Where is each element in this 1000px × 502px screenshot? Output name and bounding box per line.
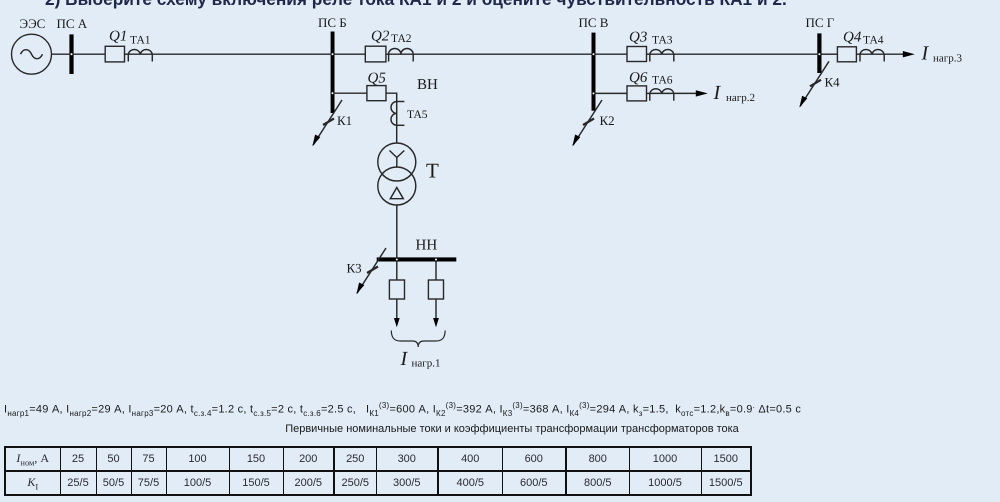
wire Q3 to TA3 [647, 53, 650, 55]
fault K2 lightning [572, 100, 602, 146]
wire TA6 to load 2 arrow [674, 92, 697, 94]
svg-text:НН: НН [416, 238, 438, 254]
svg-text:ТА2: ТА2 [391, 33, 412, 45]
feeder 1 wire upper [396, 262, 398, 281]
svg-text:ПС В: ПС В [579, 15, 609, 30]
CT TA2 [389, 49, 414, 62]
transformer T [378, 143, 416, 205]
svg-text:нагр.1: нагр.1 [412, 358, 441, 370]
generator ЭЭС (source symbol) [12, 34, 52, 74]
svg-text:ВН: ВН [417, 77, 438, 93]
svg-text:ПС А: ПС А [57, 16, 88, 31]
svg-text:Q1: Q1 [109, 28, 127, 44]
svg-text:Q5: Q5 [368, 70, 387, 86]
bus ПС А [69, 34, 73, 74]
wire transformer to bus НН [396, 205, 398, 257]
wire TA1 to bus Б [152, 53, 330, 55]
CT TA3 [650, 50, 674, 62]
bus ПС В [592, 33, 596, 111]
wire generator to bus A [52, 53, 70, 55]
breaker Q1 [105, 46, 124, 62]
svg-text:Q6: Q6 [629, 70, 648, 86]
svg-text:К1: К1 [337, 113, 352, 128]
fault K3 lightning [356, 248, 386, 294]
CT TA1 [128, 50, 152, 62]
bus НН [377, 257, 457, 261]
feeder 2 breaker [428, 280, 443, 299]
svg-text:ТА5: ТА5 [407, 109, 428, 121]
CT ratio table [4, 446, 752, 496]
fault K4 lightning [799, 61, 829, 107]
svg-text:ТА1: ТА1 [130, 35, 151, 47]
feeder 1 breaker [389, 280, 404, 299]
wire bus В to Q6 (branch) [596, 92, 628, 94]
feeder 1 wire lower [396, 299, 398, 319]
breaker Q4 [837, 47, 856, 62]
wire TA5 to transformer [396, 125, 398, 143]
label I нагр.3 [921, 43, 963, 65]
bus ПС Б [331, 32, 335, 114]
feeder 2 wire upper [435, 262, 437, 281]
breaker Q5 [367, 86, 386, 101]
wire bus Г to Q4 [822, 53, 838, 55]
feeder 2 arrow [433, 318, 439, 327]
svg-text:К2: К2 [600, 113, 615, 128]
wire Q1 to TA1 [125, 53, 129, 55]
svg-text:I: I [921, 43, 930, 65]
wire Q6 to TA6 [647, 92, 650, 94]
svg-text:ПС Г: ПС Г [806, 15, 835, 30]
table caption [12, 423, 1000, 435]
wire Q2 to TA2 [386, 53, 389, 55]
wire Q4 to TA4 [856, 53, 860, 55]
node bus Г [818, 53, 821, 56]
fault K1 lightning [312, 100, 342, 146]
svg-text:I: I [400, 348, 409, 370]
node bus Б branch [331, 92, 334, 95]
breaker Q3 [627, 47, 647, 62]
brace under feeders [391, 331, 445, 348]
wire TA3 to bus Г [674, 53, 818, 55]
svg-text:ЭЭС: ЭЭС [20, 16, 46, 31]
CT TA5 (vertical) [391, 102, 404, 126]
svg-text:нагр.2: нагр.2 [726, 92, 755, 104]
svg-text:нагр.3: нагр.3 [933, 52, 963, 64]
svg-text:ТА6: ТА6 [652, 75, 673, 87]
wire TA2 to bus В [413, 53, 591, 55]
feeder 2 wire lower [435, 299, 437, 319]
svg-text:Т: Т [426, 159, 439, 183]
svg-text:ТА3: ТА3 [652, 35, 673, 47]
node НН feeder 1 [395, 258, 398, 261]
arrow to load 3 [903, 51, 915, 57]
svg-text:I: I [713, 82, 722, 104]
feeder 1 arrow [394, 318, 400, 327]
label I нагр.2 [713, 82, 756, 104]
label I нагр.1 [400, 348, 441, 370]
parameters line [4, 401, 801, 418]
svg-text:Q4: Q4 [843, 30, 862, 46]
svg-text:К4: К4 [825, 75, 841, 90]
node bus Б main line [331, 53, 334, 56]
CT TA6 [650, 89, 674, 101]
cut-off heading text [45, 0, 787, 10]
svg-text:ТА4: ТА4 [863, 35, 884, 47]
wire Q5 to corner and down [386, 93, 397, 101]
CT TA4 [860, 50, 884, 62]
svg-text:К3: К3 [347, 261, 362, 276]
node НН feeder 2 [435, 258, 438, 261]
svg-text:Q3: Q3 [629, 30, 647, 46]
wire bus Б to Q2 [335, 53, 366, 55]
bus ПС Г [817, 33, 821, 73]
wire bus В to Q3 [596, 53, 628, 55]
wire TA4 to load 3 arrow [884, 53, 904, 55]
svg-text:ПС Б: ПС Б [318, 15, 347, 30]
node on bus A [70, 53, 73, 56]
breaker Q2 [365, 46, 386, 62]
svg-text:Q2: Q2 [371, 28, 390, 44]
arrow to load 2 [696, 90, 708, 96]
node bus В branch [592, 92, 595, 95]
node bus В main line [592, 53, 595, 56]
wire bus A to Q1 [74, 53, 106, 55]
breaker Q6 [627, 86, 647, 101]
wire bus Б to Q5 (branch) [335, 92, 367, 94]
